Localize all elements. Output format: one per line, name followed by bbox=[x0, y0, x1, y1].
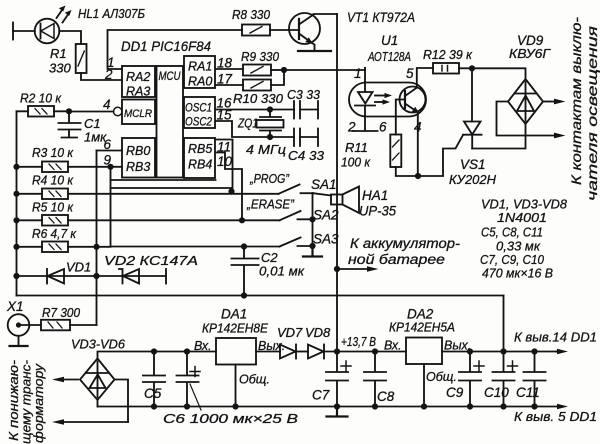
wire DA2 out bbox=[442, 351, 556, 353]
resistor R1 330 bbox=[49, 44, 87, 76]
svg-text:R3 10 к: R3 10 к bbox=[32, 145, 74, 160]
wire pin1 / chip top to R8 bbox=[108, 30, 243, 69]
capacitor C8 bbox=[364, 352, 395, 407]
wire pin 4 (MCLR) bbox=[69, 111, 113, 113]
battery line (VT1 collector down) bbox=[336, 14, 338, 352]
box RB0 RB3 bbox=[122, 138, 155, 178]
node C2/SA3 row bbox=[241, 243, 247, 249]
svg-text:4 МГц: 4 МГц bbox=[246, 142, 286, 157]
svg-text:Общ.: Общ. bbox=[239, 373, 270, 387]
capacitor C9 470мк bbox=[446, 352, 484, 407]
node C9 top bbox=[467, 348, 473, 354]
box RA1 RA0 bbox=[184, 56, 215, 88]
svg-text:C6 1000 мк×25 В: C6 1000 мк×25 В bbox=[163, 411, 298, 426]
wire pin 6 bbox=[97, 150, 122, 152]
common rail (bottom) bbox=[98, 406, 538, 408]
svg-text:0,01 мк: 0,01 мк bbox=[259, 264, 305, 279]
capacitor C11 bbox=[516, 352, 546, 407]
svg-text:SA2: SA2 bbox=[313, 208, 339, 223]
regulator DA2 КР142ЕН5А bbox=[384, 307, 471, 407]
node C6 top bbox=[184, 348, 190, 354]
svg-text:RB0: RB0 bbox=[126, 144, 150, 158]
svg-text:C5, C8, C11: C5, C8, C11 bbox=[481, 225, 543, 240]
svg-text:U1: U1 bbox=[381, 33, 398, 48]
connector X1 bbox=[6, 299, 41, 346]
svg-text:C7: C7 bbox=[312, 388, 330, 403]
node C11 bottom bbox=[531, 403, 537, 409]
svg-text:„ERASE”: „ERASE” bbox=[246, 197, 294, 212]
svg-text:OSC1: OSC1 bbox=[185, 103, 212, 115]
resistor R3 10к bbox=[32, 145, 74, 172]
box MCU bbox=[157, 66, 184, 178]
resistor R12 39к bbox=[423, 48, 473, 74]
resistor R10 330 bbox=[233, 80, 284, 107]
svg-text:Вх.: Вх. bbox=[384, 339, 402, 353]
LED HL1 bbox=[35, 6, 72, 44]
svg-text:C10: C10 bbox=[484, 385, 509, 400]
svg-text:VD8: VD8 bbox=[305, 325, 331, 340]
wire DA1 out to VD7 bbox=[256, 351, 280, 353]
node C11 top bbox=[531, 348, 537, 354]
svg-text:RA1: RA1 bbox=[188, 60, 212, 74]
svg-text:SA1: SA1 bbox=[311, 177, 337, 192]
svg-text:R2 10 к: R2 10 к bbox=[20, 91, 62, 106]
node C8 bottom bbox=[372, 403, 378, 409]
box OSC1 OSC2 bbox=[184, 97, 215, 128]
terminal (left contact) bbox=[12, 23, 14, 40]
wire R1 to pin 2 bbox=[81, 73, 122, 80]
speaker HA1 UP-35 bbox=[331, 187, 396, 219]
wire R2 row bbox=[17, 110, 70, 112]
svg-text:К контактам выклю-: К контактам выклю- bbox=[568, 17, 584, 185]
node bus/R6 bbox=[13, 244, 19, 250]
wire R5 row to SA2 bbox=[17, 219, 280, 221]
node R2/C1 bbox=[66, 108, 72, 114]
wire R6 row bbox=[17, 246, 111, 248]
resistor R8 330 bbox=[232, 7, 271, 36]
svg-text:RB5: RB5 bbox=[188, 142, 212, 156]
svg-text:Общ.: Общ. bbox=[426, 370, 457, 384]
svg-text:Вх.: Вх. bbox=[194, 339, 212, 353]
node DA1 common bbox=[232, 403, 238, 409]
svg-text:R11: R11 bbox=[345, 140, 368, 155]
node pin10/SA2 row bbox=[239, 217, 245, 223]
label HL1 АЛ307Б bbox=[78, 6, 145, 21]
label +13,7В bbox=[341, 334, 376, 349]
node DA2 common bbox=[421, 403, 427, 409]
capacitor C2 0,01мк bbox=[232, 247, 305, 296]
capacitor C3 33 bbox=[287, 87, 321, 119]
node R3/pin9 branch bbox=[107, 164, 113, 170]
node C10 top bbox=[500, 348, 506, 354]
node C10 bottom bbox=[500, 403, 506, 409]
svg-text:2: 2 bbox=[104, 67, 113, 82]
svg-text:R12 39 к: R12 39 к bbox=[423, 48, 473, 62]
svg-text:330: 330 bbox=[49, 61, 71, 76]
svg-text:DD1 PIC16F84: DD1 PIC16F84 bbox=[121, 39, 211, 54]
node battery/C7/rail bbox=[334, 348, 340, 354]
svg-text:ной батарее: ной батарее bbox=[348, 252, 445, 267]
svg-text:RA0: RA0 bbox=[188, 75, 212, 89]
node C9 bottom bbox=[467, 403, 473, 409]
svg-text:R8 330: R8 330 bbox=[232, 7, 271, 22]
node C2 on rail bbox=[241, 292, 247, 298]
svg-text:X1: X1 bbox=[6, 299, 24, 314]
IC DD1 PIC16F84 bbox=[103, 39, 233, 180]
svg-text:R7 300: R7 300 bbox=[42, 305, 81, 320]
svg-text:1N4001: 1N4001 bbox=[497, 210, 547, 225]
wire pin 15 to C4 bbox=[216, 121, 295, 137]
node R12/VS1/VD9 bbox=[469, 65, 475, 71]
wire pin 10 to SA2 row bbox=[216, 153, 243, 221]
node R11/pin4 bbox=[415, 173, 421, 179]
svg-text:1мк: 1мк bbox=[84, 130, 107, 145]
left bus bbox=[16, 111, 18, 295]
parts list text bbox=[480, 197, 568, 281]
light arrows bbox=[375, 95, 386, 97]
wire pin9 branch down bbox=[111, 167, 280, 247]
ground (common rail) bbox=[327, 407, 348, 417]
svg-text:VD1: VD1 bbox=[66, 260, 91, 275]
svg-text:RB4: RB4 bbox=[188, 158, 212, 172]
wire U1 pin1 elbow bbox=[364, 68, 366, 70]
svg-text:VT1 КТ972А: VT1 КТ972А bbox=[347, 10, 415, 25]
resistor R7 300 bbox=[41, 305, 81, 330]
svg-text:470 мк×16 В: 470 мк×16 В bbox=[482, 266, 553, 281]
wire pin 11 to SA1 row bbox=[216, 140, 233, 191]
switch SA3 bbox=[280, 232, 340, 247]
svg-text:RB3: RB3 bbox=[126, 160, 150, 174]
svg-text:RA2: RA2 bbox=[126, 70, 150, 84]
svg-text:HA1: HA1 bbox=[362, 188, 388, 203]
thyristor VS1 КУ202Н bbox=[449, 68, 497, 187]
label VT1 КТ972А bbox=[347, 10, 415, 25]
svg-text:R1: R1 bbox=[50, 46, 67, 61]
arrow to battery bbox=[337, 266, 379, 272]
svg-text:6: 6 bbox=[379, 120, 387, 135]
svg-text:R6 4,7 к: R6 4,7 к bbox=[32, 226, 77, 241]
svg-text:MCLR: MCLR bbox=[124, 108, 152, 120]
pin 6 wire to R11 bbox=[395, 117, 397, 135]
svg-text:VD2 КС147А: VD2 КС147А bbox=[104, 253, 198, 268]
wire bbox=[59, 31, 81, 44]
wire R7 to RB0 vertical bbox=[70, 324, 97, 326]
node C5 top bbox=[151, 348, 157, 354]
pin 1 wire bbox=[364, 68, 366, 83]
box MCLR bbox=[122, 100, 155, 125]
bottom edge bbox=[111, 179, 216, 181]
node ZQ1 bottom bbox=[267, 134, 273, 140]
capacitor C4 33 bbox=[288, 129, 325, 164]
resistor R2 10к bbox=[20, 91, 62, 117]
node bus/R5 bbox=[13, 217, 19, 223]
regulator DA1 КР142ЕН8Е bbox=[194, 307, 285, 407]
svg-text:100 к: 100 к bbox=[341, 155, 371, 170]
svg-text:SA3: SA3 bbox=[313, 232, 339, 247]
wire VD3-VD6 bottom to common rail bbox=[97, 400, 99, 407]
svg-text:чателя освещения: чателя освещения bbox=[584, 25, 600, 201]
ground (VT1 emitter) bbox=[298, 50, 331, 52]
svg-text:КР142ЕН8Е: КР142ЕН8Е bbox=[202, 321, 268, 336]
pin 5 wire to R12 bbox=[417, 68, 433, 88]
svg-text:HL1 АЛ307Б: HL1 АЛ307Б bbox=[78, 6, 145, 21]
svg-text:1: 1 bbox=[354, 66, 362, 81]
wire R4 row to SA1 bbox=[17, 193, 279, 195]
svg-text:DA1: DA1 bbox=[221, 307, 247, 322]
svg-text:C11: C11 bbox=[516, 385, 540, 400]
svg-text:UP-35: UP-35 bbox=[359, 204, 396, 219]
bridge rectifier VD3-VD6 bbox=[71, 337, 126, 401]
wire R3 row to pin 9 bbox=[17, 166, 122, 168]
svg-text:ZQ1: ZQ1 bbox=[237, 116, 258, 131]
diode VD1 bbox=[17, 260, 97, 284]
rotated text: К контактам выключателя освещения bbox=[568, 17, 600, 201]
wire R9 to junction bbox=[271, 69, 284, 71]
LED inside bbox=[358, 83, 373, 104]
node R9/R10 junction bbox=[281, 67, 287, 73]
ground (X1) bbox=[10, 345, 28, 347]
phototransistor bbox=[400, 87, 426, 113]
wire branch to pin11 row bbox=[111, 188, 232, 191]
ground (switches) bbox=[303, 250, 322, 257]
node C5 bottom bbox=[151, 403, 157, 409]
svg-text:VD7: VD7 bbox=[277, 325, 303, 340]
wire pin 18 to R9 bbox=[216, 68, 244, 70]
pin 4 wire down bbox=[417, 112, 419, 176]
svg-text:C9: C9 bbox=[446, 385, 464, 400]
wire R8 to VT1 base bbox=[270, 29, 299, 31]
svg-text:КР142ЕН5А: КР142ЕН5А bbox=[389, 320, 455, 335]
node C7 ground bbox=[334, 403, 340, 409]
svg-text:К выв.14 DD1: К выв.14 DD1 bbox=[514, 330, 597, 345]
wire R12 to junction bbox=[459, 67, 472, 69]
svg-text:VD3-VD6: VD3-VD6 bbox=[71, 337, 126, 352]
node bus/VD1 bbox=[13, 273, 19, 279]
node ZQ1 top bbox=[267, 106, 273, 112]
+5V rail bbox=[17, 295, 504, 297]
svg-text:MCU: MCU bbox=[159, 69, 181, 83]
svg-text:КВУ6Г: КВУ6Г bbox=[509, 46, 551, 61]
svg-text:форматору: форматору bbox=[31, 362, 46, 443]
svg-text:АОТ128А: АОТ128А bbox=[367, 49, 411, 64]
wire VD9 left corner loop to arrow bbox=[497, 102, 566, 139]
capacitor C7 470мк bbox=[312, 352, 351, 407]
capacitor C5 bbox=[143, 352, 165, 407]
svg-text:2: 2 bbox=[347, 120, 356, 135]
capacitor C10 470мк bbox=[484, 352, 518, 407]
arrow К выв.5 DD1 bbox=[514, 404, 597, 424]
wire VD7 to VD8 bbox=[296, 351, 308, 353]
arrow К выв.14 DD1 bbox=[514, 330, 597, 355]
svg-text:К выв. 5 DD1: К выв. 5 DD1 bbox=[514, 409, 597, 424]
diode VD7 bbox=[277, 325, 303, 359]
svg-text:R4 10 к: R4 10 к bbox=[32, 173, 74, 188]
svg-text:„PROG”: „PROG” bbox=[249, 171, 289, 186]
svg-text:R9 330: R9 330 bbox=[241, 49, 280, 64]
optocoupler U1 АОТ128А bbox=[347, 33, 426, 135]
svg-text:C8: C8 bbox=[377, 389, 395, 404]
wire R11 bottom to node bbox=[396, 167, 418, 176]
wire bbox=[13, 30, 35, 32]
wire VD8 to +13,7В rail bbox=[324, 351, 406, 353]
node bus/R3 bbox=[13, 164, 19, 170]
arrow to transformer (lower) bbox=[52, 419, 128, 425]
wire VS1 cathode to VD9 bottom bbox=[472, 124, 525, 149]
wire pin 17 to R10 bbox=[216, 84, 244, 86]
svg-text:C4 33: C4 33 bbox=[288, 148, 325, 163]
node bus/R4 bbox=[13, 191, 19, 197]
node pin11/SA1 row bbox=[228, 188, 234, 194]
label К аккумуляторной батарее bbox=[348, 236, 461, 267]
wire SA1 contact to speaker bbox=[313, 193, 331, 195]
resistor R5 10к bbox=[32, 200, 74, 226]
diode VD8 bbox=[305, 325, 331, 359]
zener VD2 КС147А bbox=[97, 253, 199, 284]
wire VD9 right corner arrow bbox=[543, 99, 566, 105]
capacitor C6 1000мк bbox=[163, 352, 298, 427]
quartz ZQ1 4 МГц bbox=[237, 110, 286, 158]
transistor VT1 КТ972А bbox=[289, 13, 320, 50]
wire +5V rail drop bbox=[503, 296, 505, 352]
node C8 top bbox=[372, 348, 378, 354]
wire pin 16 to C3 bbox=[216, 109, 295, 111]
arrow to transformer (upper) bbox=[52, 377, 78, 383]
box RB5 RB4 bbox=[184, 138, 215, 178]
resistor R6 4,7к bbox=[32, 226, 77, 252]
wire VT1 collector to battery line bbox=[314, 13, 338, 15]
vertical RB0 line (pin6 to R7) bbox=[96, 151, 98, 326]
node SA3 contact bbox=[309, 243, 315, 249]
rotated text: К понижающему трансформатору bbox=[6, 359, 46, 444]
svg-text:VS1: VS1 bbox=[460, 157, 486, 172]
svg-text:R5 10 к: R5 10 к bbox=[32, 200, 74, 215]
capacitor C1 1мк bbox=[59, 111, 108, 144]
svg-text:5: 5 bbox=[406, 66, 414, 81]
svg-text:R10 330: R10 330 bbox=[233, 91, 284, 106]
resistor R11 100к bbox=[341, 135, 401, 170]
pin 2 terminal bbox=[353, 117, 378, 132]
switch common vertical bbox=[312, 193, 314, 249]
switch SA2 bbox=[246, 197, 339, 223]
bridge rectifier VD9 КВУ6Г bbox=[508, 33, 551, 124]
wire VD3-VD6 top to DA1 rail bbox=[98, 352, 217, 359]
svg-text:C5: C5 bbox=[144, 386, 162, 401]
node SA2 contact bbox=[309, 216, 315, 222]
wire VD3-VD6 right corner down bbox=[115, 380, 129, 423]
svg-text:RA3: RA3 bbox=[126, 85, 150, 99]
switch SA1 bbox=[249, 171, 336, 194]
resistor R9 330 bbox=[241, 49, 280, 76]
wire R10 up to junction bbox=[271, 70, 284, 85]
wire junction to U1 pin1 bbox=[284, 69, 365, 71]
node battery arrow bbox=[334, 266, 340, 272]
svg-text:OSC2: OSC2 bbox=[185, 117, 213, 129]
svg-text:+13,7 В: +13,7 В bbox=[341, 334, 376, 349]
box RA2 RA3 bbox=[122, 66, 155, 97]
svg-text:C3 33: C3 33 bbox=[287, 87, 321, 102]
svg-text:К аккумулятор-: К аккумулятор- bbox=[350, 236, 461, 251]
node R6/RB0 vertical bbox=[93, 244, 99, 250]
node VD1/VD2 bbox=[93, 273, 99, 279]
node C6 bottom bbox=[184, 403, 190, 409]
wire node to VS1 gate bbox=[418, 135, 463, 176]
svg-text:КУ202Н: КУ202Н bbox=[449, 172, 497, 187]
svg-text:4: 4 bbox=[103, 97, 111, 112]
wire junction to VD9 top bbox=[472, 68, 526, 79]
resistor R4 10к bbox=[32, 173, 74, 200]
